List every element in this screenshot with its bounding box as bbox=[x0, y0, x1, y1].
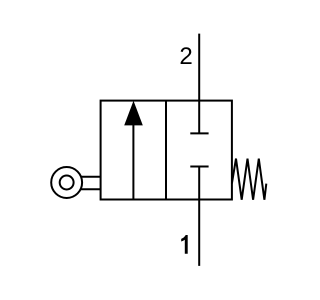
port 1 wire bbox=[198, 167, 200, 266]
roller outer circle bbox=[51, 167, 82, 198]
roller actuator stem (plunger) lower wire bbox=[80, 188, 101, 190]
port 2 wire bbox=[198, 34, 200, 134]
valve body V1 position boxes bbox=[101, 101, 232, 200]
port label 1 bbox=[181, 235, 188, 254]
blocked port symbol (bottom, port 1) bbox=[190, 166, 208, 168]
roller actuator stem (plunger) upper wire bbox=[80, 176, 101, 178]
position divider wire bbox=[165, 101, 167, 200]
flow path arrowhead bbox=[124, 101, 143, 126]
flow path arrow shaft (left position) bbox=[132, 122, 134, 200]
blocked port symbol (top, port 2) bbox=[190, 132, 208, 134]
port label 2 bbox=[181, 47, 192, 64]
roller inner circle bbox=[60, 176, 74, 190]
return spring bbox=[232, 159, 266, 200]
